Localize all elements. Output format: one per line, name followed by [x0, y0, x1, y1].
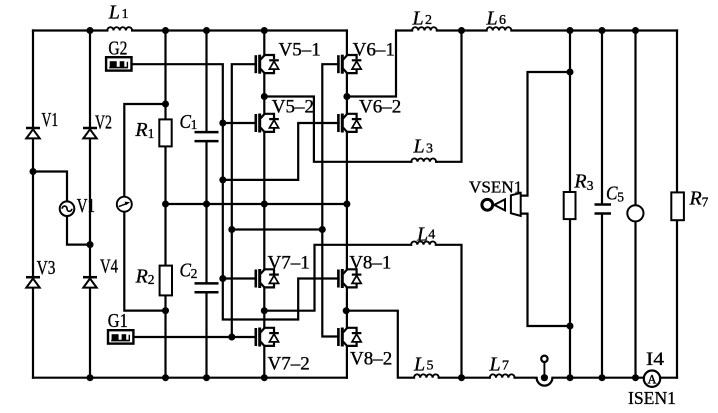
svg-text:V1: V1 — [77, 195, 95, 217]
svg-text:7: 7 — [502, 358, 509, 373]
svg-text:2: 2 — [148, 272, 155, 287]
svg-text:7: 7 — [702, 195, 709, 210]
svg-text:G2: G2 — [108, 38, 127, 60]
svg-text:5: 5 — [427, 358, 434, 373]
svg-text:L: L — [489, 354, 501, 376]
svg-text:L: L — [486, 7, 498, 29]
svg-text:6: 6 — [499, 13, 506, 28]
svg-text:1: 1 — [148, 126, 155, 141]
svg-text:V7–2: V7–2 — [268, 354, 310, 375]
svg-text:L: L — [413, 136, 425, 158]
svg-text:R: R — [134, 119, 147, 141]
svg-text:2: 2 — [191, 266, 198, 281]
svg-text:A: A — [647, 372, 656, 386]
svg-text:1: 1 — [122, 7, 129, 22]
svg-text:3: 3 — [426, 141, 433, 156]
svg-text:I4: I4 — [646, 349, 665, 370]
svg-text:V5–1: V5–1 — [279, 40, 321, 61]
svg-text:L: L — [413, 354, 425, 376]
svg-text:V4: V4 — [100, 256, 118, 278]
svg-text:VSEN1: VSEN1 — [469, 177, 522, 196]
svg-text:ISEN1: ISEN1 — [628, 388, 676, 408]
svg-text:V8–2: V8–2 — [350, 349, 392, 370]
svg-text:L: L — [416, 224, 428, 246]
svg-text:V1: V1 — [42, 109, 59, 131]
svg-text:V8–1: V8–1 — [349, 253, 391, 274]
svg-text:R: R — [135, 266, 148, 288]
svg-text:2: 2 — [425, 13, 432, 28]
svg-text:5: 5 — [617, 190, 624, 205]
svg-text:G1: G1 — [108, 310, 128, 332]
svg-text:V6–2: V6–2 — [359, 97, 401, 118]
svg-text:V3: V3 — [37, 257, 56, 279]
svg-text:V7–1: V7–1 — [268, 253, 310, 274]
svg-text:L: L — [108, 1, 120, 23]
svg-text:L: L — [412, 7, 424, 29]
svg-text:V5–2: V5–2 — [272, 97, 314, 118]
svg-text:1: 1 — [191, 117, 198, 132]
svg-text:R: R — [689, 188, 702, 210]
svg-text:4: 4 — [428, 228, 435, 243]
svg-text:V2: V2 — [95, 112, 112, 134]
svg-text:R: R — [573, 171, 586, 193]
svg-text:V6–1: V6–1 — [353, 40, 395, 61]
svg-text:3: 3 — [587, 178, 594, 193]
